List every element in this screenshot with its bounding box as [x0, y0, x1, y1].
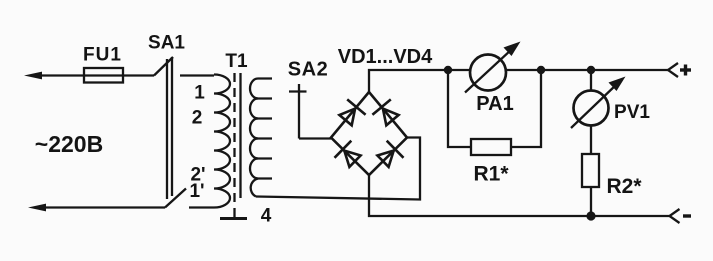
resistor R2 branch [590, 70, 592, 154]
ammeter PA1 [470, 55, 506, 91]
switch SA1 blade (top pole) [154, 57, 173, 76]
svg-text:SA2: SA2 [288, 59, 328, 81]
svg-text:PA1: PA1 [476, 93, 513, 115]
fuse FU1 [84, 74, 154, 76]
transformer screen chassis bar [220, 217, 247, 220]
junction dot at R1 right [537, 66, 545, 74]
junction dot at R2 bottom [586, 211, 595, 220]
output terminal plus [668, 63, 678, 77]
svg-text:2: 2 [192, 108, 203, 129]
svg-text:4: 4 [261, 206, 272, 227]
wire SA2 to bridge left corner [299, 137, 331, 139]
svg-text:SA1: SA1 [148, 33, 185, 54]
transformer T1 screen (dashed) [233, 73, 235, 211]
voltmeter PV1 [574, 91, 609, 126]
svg-text:R1*: R1* [473, 163, 509, 186]
svg-text:PV1: PV1 [614, 102, 650, 123]
wire SA1 to T1 primary (bottom) [189, 206, 214, 208]
svg-text:R2*: R2* [606, 175, 642, 198]
diode VD (bottom-left) [335, 141, 361, 167]
diode VD (top-right) [372, 99, 398, 125]
wire secondary pin 4 to bridge right corner [256, 138, 420, 200]
switch SA2 [298, 84, 300, 139]
switch SA1 mechanical link [166, 59, 168, 199]
junction dot at PV1 top [587, 66, 595, 74]
transformer T1 core [239, 73, 241, 198]
svg-text:1: 1 [194, 83, 205, 104]
transformer T1 primary winding [214, 75, 230, 208]
wire bridge top corner to plus rail [369, 70, 668, 92]
svg-text:FU1: FU1 [83, 45, 122, 66]
svg-text:VD1...VD4: VD1...VD4 [338, 46, 433, 68]
switch SA1 blade (bottom pole) [165, 189, 186, 208]
svg-text:T1: T1 [225, 51, 248, 72]
AC input arrow (bottom) [40, 206, 165, 208]
wire bridge bottom corner to minus rail [369, 175, 670, 216]
svg-text:1': 1' [189, 181, 204, 202]
svg-text:~220В: ~220В [35, 131, 103, 157]
diode VD (top-left) [339, 99, 365, 125]
junction dot at R1 left [444, 66, 452, 74]
output terminal minus [670, 209, 680, 223]
AC input arrow (top) [36, 74, 84, 76]
wire SA1 to T1 primary (top) [180, 74, 214, 76]
bridge rectifier VD1...VD4 diamond [331, 92, 407, 175]
resistor R1 shunt branch [448, 70, 471, 147]
diode VD (bottom-right) [377, 141, 403, 167]
transformer T1 secondary winding [250, 79, 272, 99]
